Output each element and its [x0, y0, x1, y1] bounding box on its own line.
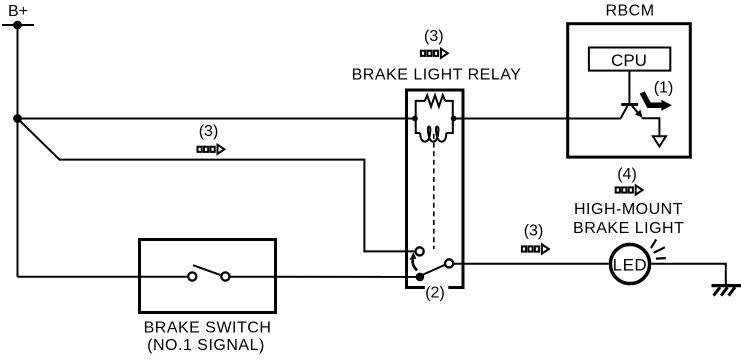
wire: junction to relay coil left terminal [18, 118, 416, 120]
B+ terminal bar [2, 24, 34, 26]
svg-text:BRAKE LIGHT: BRAKE LIGHT [573, 220, 684, 237]
svg-text:BRAKE LIGHT RELAY: BRAKE LIGHT RELAY [352, 66, 522, 83]
box: brake switch [140, 240, 276, 313]
inductor (relay coil) loops [420, 127, 446, 142]
box: RBCM [568, 24, 691, 157]
node: junction dot [13, 114, 22, 123]
connector symbol (3) relay [421, 49, 448, 58]
svg-text:CPU: CPU [611, 51, 647, 70]
svg-text:(4): (4) [617, 166, 637, 183]
ground: RBCM internal (open triangle) [653, 136, 666, 146]
relay coil frame right vertical [445, 101, 453, 133]
connector symbol (3) left branch [198, 145, 225, 154]
node: B+ tap dot [13, 21, 22, 30]
svg-text:(3): (3) [199, 123, 219, 140]
LED light rays [651, 239, 656, 248]
node: coil right terminal dot [451, 116, 457, 122]
wire: junction branch to relay NC contact [18, 119, 416, 252]
switch contact left (brake switch) [188, 272, 196, 280]
svg-text:B+: B+ [8, 3, 28, 20]
wire: brake switch to relay common contact [230, 276, 420, 278]
relay common contact dot [416, 273, 425, 282]
transistor Q1 emitter diagonal with arrow [632, 106, 639, 114]
svg-text:HIGH-MOUNT: HIGH-MOUNT [574, 201, 683, 218]
switch blade (brake switch) [193, 265, 221, 275]
relay NC contact circle [416, 247, 424, 255]
transistor Q1 base wire from CPU [628, 71, 630, 104]
svg-text:LED: LED [613, 256, 648, 275]
wire: relay coil right terminal to transistor collector [453, 118, 621, 120]
ground: chassis (bar with hatches) [712, 284, 741, 287]
relay coil frame left vertical [416, 101, 425, 133]
svg-text:(2): (2) [425, 285, 445, 302]
wire: emitter to internal ground [642, 118, 660, 135]
wire: B+ vertical bus [17, 25, 19, 277]
transistor Q1 collector diagonal [621, 106, 628, 119]
connector symbol (3) output [522, 244, 549, 253]
transistor Q1 base bar [621, 103, 638, 106]
actuation direction curved arrow [413, 259, 417, 270]
LED lamp circle [610, 244, 649, 283]
box: CPU [589, 48, 670, 71]
node: coil left terminal dot [412, 116, 418, 122]
svg-text:RBCM: RBCM [605, 3, 654, 20]
wire: bottom feed to brake switch [18, 276, 189, 278]
svg-text:(NO.1 SIGNAL): (NO.1 SIGNAL) [147, 337, 265, 354]
relay switch blade [421, 265, 445, 276]
svg-text:(3): (3) [424, 28, 444, 45]
switch contact right (brake switch) [221, 272, 229, 280]
svg-text:(3): (3) [524, 222, 544, 239]
relay NO contact circle [445, 259, 453, 267]
wire: LED to chassis ground [652, 264, 726, 285]
dashed actuation link [433, 134, 435, 249]
bold bent arrow (1) [642, 93, 662, 106]
svg-text:(1): (1) [654, 79, 674, 96]
wire: relay output to LED [453, 263, 608, 265]
connector symbol (4) [616, 185, 643, 194]
svg-text:BRAKE SWITCH: BRAKE SWITCH [144, 320, 272, 337]
box: brake light relay (bottom gap for label) [407, 90, 464, 288]
resistor (relay coil suppressor) zigzag [425, 95, 445, 106]
